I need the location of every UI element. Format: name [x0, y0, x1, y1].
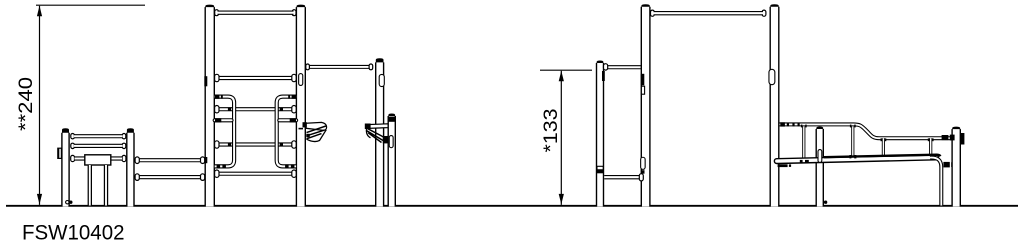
tick marks on rungs [228, 107, 231, 111]
side pull-up bar [604, 65, 641, 69]
oval handhold on ladder right post [298, 76, 303, 84]
bench top bar left knob [70, 135, 75, 137]
dark dash on side short post below bar [602, 71, 605, 81]
dimension **240 top arrowhead [37, 6, 42, 17]
oval handhold on side frame left post [640, 160, 646, 168]
clamp under seat left end [778, 164, 788, 167]
ladder top bar [218, 10, 294, 14]
lower rail left knob [134, 176, 139, 178]
side lower bar [604, 175, 639, 179]
bench strut 2 [851, 126, 854, 157]
side frame top bar right knob [762, 12, 767, 14]
clamp bottom right pipe [291, 164, 295, 168]
side frame right post [770, 4, 778, 206]
left short rung mid [215, 118, 232, 122]
dimension **240 vertical line [39, 6, 41, 205]
ladder left post [205, 5, 214, 207]
bench strut 4 [929, 138, 932, 156]
clamp seat leg to right post [943, 162, 949, 168]
bench right post [952, 127, 960, 207]
anchor bolts at bench post base [66, 201, 69, 204]
oval handhold on side frame right post [768, 72, 775, 82]
bench seat plank [777, 157, 936, 161]
ladder top bar right knob [292, 12, 297, 14]
clamp on ladder left post upper [204, 76, 207, 86]
clamp mid right pipe [290, 118, 296, 122]
bench table leg right [104, 165, 108, 206]
fitting outline under clamp [641, 86, 644, 94]
rung middle left knob [214, 143, 220, 146]
rung upper left knob [214, 108, 220, 111]
connector on side short post [603, 66, 608, 68]
pull-up bar left knob [305, 66, 310, 68]
ladder top bar left knob [214, 12, 219, 14]
bench lower bar left knob [70, 157, 75, 159]
side frame left post [641, 4, 649, 206]
bench seat right bend and leg [930, 158, 941, 206]
bench table top slab [85, 155, 111, 165]
bench top bar right knob [122, 135, 127, 137]
side short post [597, 61, 604, 207]
bench lower bar [75, 156, 123, 160]
clamp on bench right post outer [961, 133, 965, 145]
step bracket on ladder right post [299, 122, 327, 141]
bench strut 1 [802, 126, 805, 158]
oval handhold on corner post [379, 77, 385, 84]
clamp marks at strut joints [801, 125, 803, 128]
dimension *133 top arrowhead [559, 71, 564, 82]
side lower bar right knob [639, 176, 644, 179]
rung lower left knob [214, 172, 220, 175]
ladder middle bar right knob [291, 77, 297, 80]
rung lower right knob [291, 172, 297, 175]
svg-text:**240: **240 [15, 77, 37, 131]
dimension *133 vertical line [560, 71, 562, 205]
clamp bottom left pipe [217, 164, 221, 168]
rung lower [218, 172, 293, 176]
ladder middle bar left knob [214, 77, 220, 80]
clamp on bench top rail [780, 122, 785, 126]
lower rail right knob [200, 176, 205, 178]
bench middle bar left knob [70, 145, 75, 147]
upper rail right knob [200, 159, 205, 161]
anchor bolt at support post base [824, 201, 827, 204]
dimension **240 bottom arrowhead [37, 194, 42, 205]
bench support post [816, 127, 823, 207]
bench middle bar right knob [122, 145, 127, 147]
seat plank dark top edge [824, 155, 941, 158]
clamp top left pipe [215, 95, 219, 99]
clamp marks at strut bases on seat [800, 160, 803, 163]
bench top rail with S-bend [780, 124, 952, 138]
bench table leg left [88, 165, 92, 206]
step bracket at corner posts [365, 124, 390, 144]
ground line [6, 205, 1018, 207]
lower rail bench-to-ladder [139, 175, 201, 179]
svg-text:FSW10402: FSW10402 [22, 221, 125, 245]
clamp on bench right post rail junction [942, 135, 949, 140]
corner tall post [376, 58, 384, 206]
clamp on side short post at lower bar [597, 166, 603, 170]
clamp on side frame left post [641, 74, 645, 86]
pull-up bar right knob [368, 66, 373, 68]
bench strut 3 [882, 138, 885, 158]
dimension **240 extension line [36, 4, 145, 6]
side frame top bar [654, 11, 764, 15]
clamp top right pipe [292, 95, 296, 99]
dimension *133 bottom arrowhead [559, 194, 564, 205]
upper rail left knob [134, 159, 139, 161]
left C-shaped climber pipe [215, 97, 234, 167]
rung middle right knob [291, 143, 297, 146]
ladder middle bar [218, 76, 293, 80]
pull-up bar [307, 65, 371, 69]
clamp fitting on bench left post [58, 148, 62, 158]
rung upper right knob [291, 108, 297, 111]
ladder right post [297, 5, 306, 207]
clamp mid left pipe [215, 118, 221, 122]
clamp block on short post top [388, 117, 395, 122]
upper rail bench-to-ladder [139, 158, 201, 162]
side frame top bar left knob [650, 12, 655, 14]
bench lower bar right knob [122, 157, 127, 159]
clamp on ladder left post lower [204, 157, 207, 163]
dimension *133 extension line [540, 69, 592, 71]
fitting above side lower bar knob [641, 170, 645, 174]
oval handhold on bench support post [817, 151, 822, 160]
bench left post [62, 128, 69, 206]
rung upper [218, 107, 293, 111]
oval handhold on short post [389, 138, 394, 146]
svg-text:*133: *133 [540, 109, 562, 153]
right short rung mid [279, 118, 296, 122]
corner short front post [388, 114, 395, 207]
bench right post [127, 128, 134, 206]
right C-shaped climber pipe [277, 97, 296, 167]
bench top bar [74, 134, 123, 138]
rung middle [218, 142, 293, 146]
bench middle bar [74, 144, 123, 148]
